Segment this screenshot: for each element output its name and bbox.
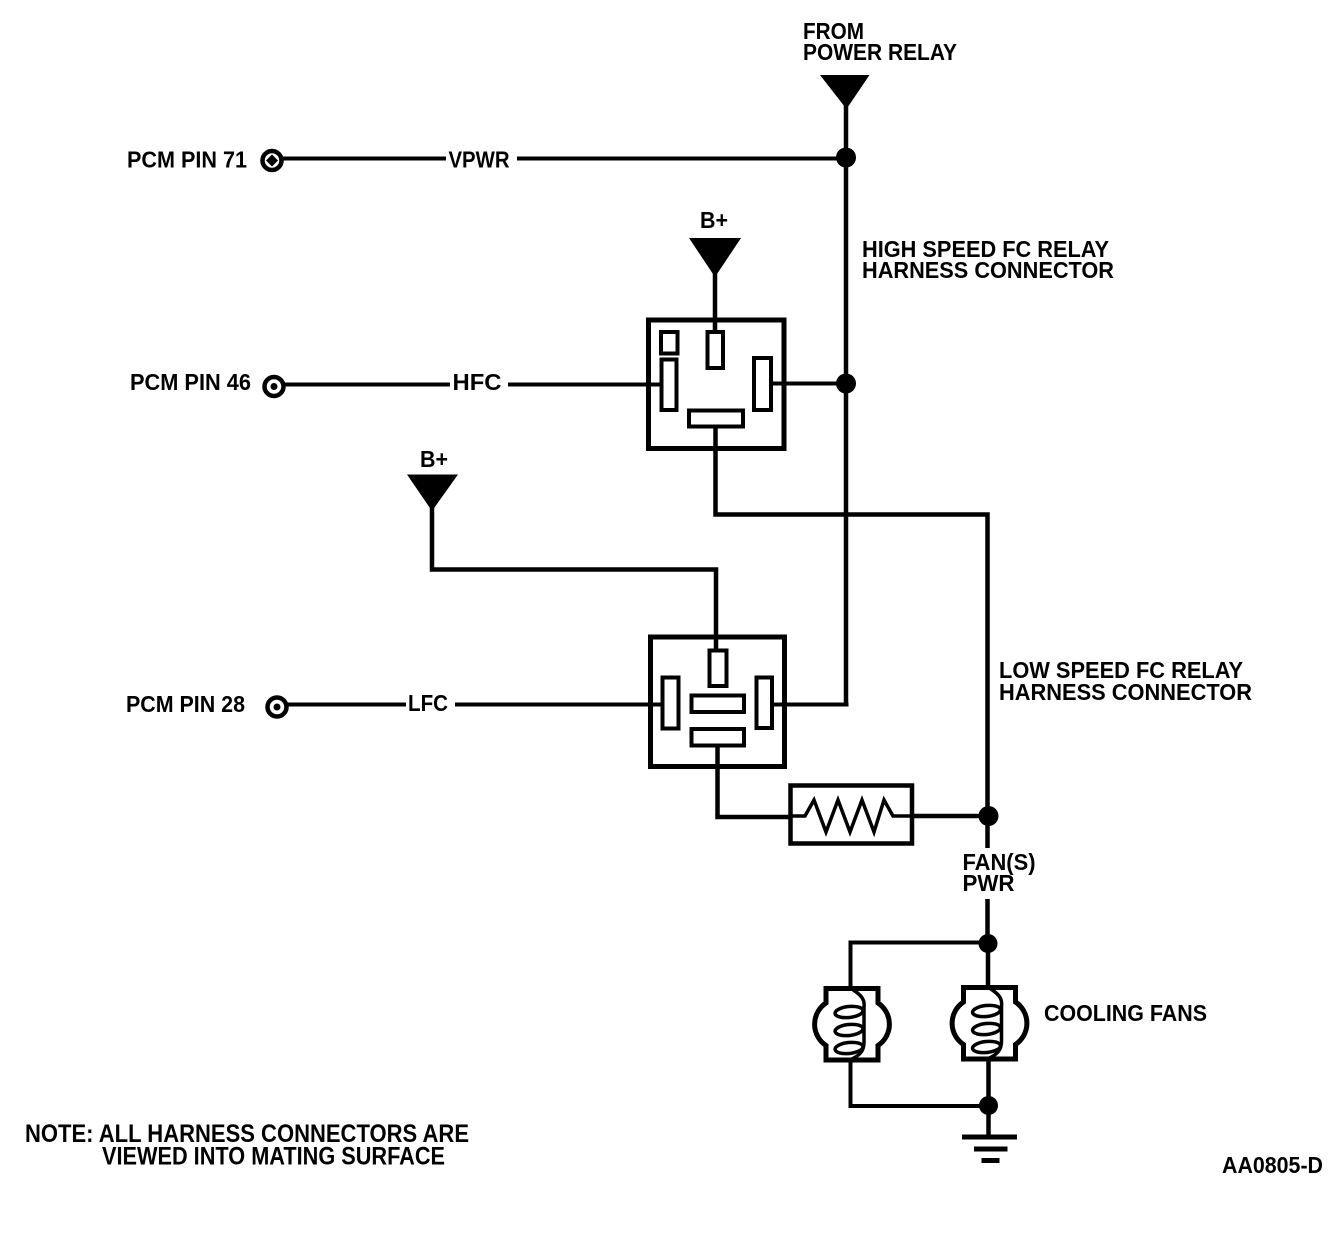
wire B+ to relay pin [713,272,718,334]
ground symbol [962,1137,1017,1161]
resistor zigzag element [791,800,913,832]
relay K1 pin (small upper-left) [661,332,678,354]
relay K2 pin (top center) [710,651,727,687]
junction VPWR/bus [836,148,856,168]
svg-text:B+: B+ [700,207,728,233]
wire [517,157,848,161]
svg-text:POWER RELAY: POWER RELAY [803,39,957,65]
wire relay K2 bottom pin down to resistor [718,745,793,817]
relay K2 pin (right) [757,678,773,729]
connector pin PCM PIN 46 [265,377,284,396]
svg-text:B+: B+ [420,446,448,472]
junction HFC/bus [836,374,856,394]
wire right fan to ground junction [986,1059,991,1108]
relay K2 low speed FC relay connector body [651,637,785,767]
svg-text:VIEWED INTO MATING SURFACE: VIEWED INTO MATING SURFACE [102,1143,445,1171]
wire relay K1 right pin to bus [770,382,848,386]
wire resistor output to fan power junction [912,814,990,819]
wire relay K1 bottom pin down, right, down to fan power junction [716,426,988,816]
motor M1 left cooling fan body [815,989,890,1061]
wire VPWR vertical bus from arrow down to LFC relay wire [844,104,849,705]
wire branch to left fan [851,943,991,989]
svg-text:LFC: LFC [408,690,448,716]
junction fan branch top [979,934,998,953]
wire stub below junction [985,816,990,848]
wire to ground [986,1106,991,1137]
relay K1 pin (top center) [708,332,724,368]
relay K2 pin (left) [663,678,679,729]
relay K2 pin (bottom horizontal) [692,729,745,746]
wire [455,703,663,707]
wire relay K2 right pin to bus end [770,703,849,707]
label LOW SPEED FC RELAY HARNESS CONNECTOR [999,657,1252,705]
motor M2 winding [972,988,1002,1058]
relay K1 pin (left) [662,360,677,411]
wire HFC horizontal (PCM PIN 46 to relay) [285,383,450,387]
wire left fan to ground junction [851,1060,991,1106]
label HIGH SPEED FC RELAY HARNESS CONNECTOR [862,236,1114,283]
wire VPWR horizontal (PCM PIN 71 to bus) [283,157,446,161]
wire branch to right fan [986,944,991,987]
motor M2 right cooling fan body [952,988,1027,1060]
svg-text:PCM PIN 46: PCM PIN 46 [130,369,251,395]
motor M1 winding [835,989,865,1059]
connector pin PCM PIN 28 [268,698,287,717]
B+ supply arrow (low speed relay) [407,475,458,512]
note text [25,1120,469,1171]
relay K1 pin (right) [754,358,771,410]
connector pin PCM PIN 71 [263,151,282,170]
svg-text:AA0805-D: AA0805-D [1222,1152,1323,1178]
svg-text:PWR: PWR [963,870,1015,896]
svg-text:HARNESS CONNECTOR: HARNESS CONNECTOR [862,257,1114,283]
relay K1 pin (bottom center horizontal) [689,411,743,427]
wire B+ to relay K2 top pin [432,506,716,653]
wire FAN(S) PWR down to fan branch junction [985,899,990,946]
resistor (fan speed dropping resistor) body [791,786,913,844]
svg-text:COOLING FANS: COOLING FANS [1044,1000,1207,1026]
svg-text:PCM PIN 71: PCM PIN 71 [127,147,247,173]
relay K1 high speed FC relay connector body [649,320,785,449]
label FROM POWER RELAY [803,18,957,65]
svg-text:HFC: HFC [453,369,502,395]
svg-text:PCM PIN 28: PCM PIN 28 [126,691,245,717]
junction ground node [979,1096,998,1115]
wire [508,383,663,387]
svg-text:HARNESS CONNECTOR: HARNESS CONNECTOR [999,679,1252,705]
power feed arrow (from power relay) [820,75,870,109]
wire LFC horizontal (PCM PIN 28 to relay) [288,703,406,707]
relay K2 pin (middle horizontal) [692,696,745,713]
B+ supply arrow (high speed relay) [689,238,741,277]
svg-text:VPWR: VPWR [449,147,510,173]
net label FAN(S) PWR [963,849,1036,896]
junction FAN(S) PWR node [979,806,999,826]
